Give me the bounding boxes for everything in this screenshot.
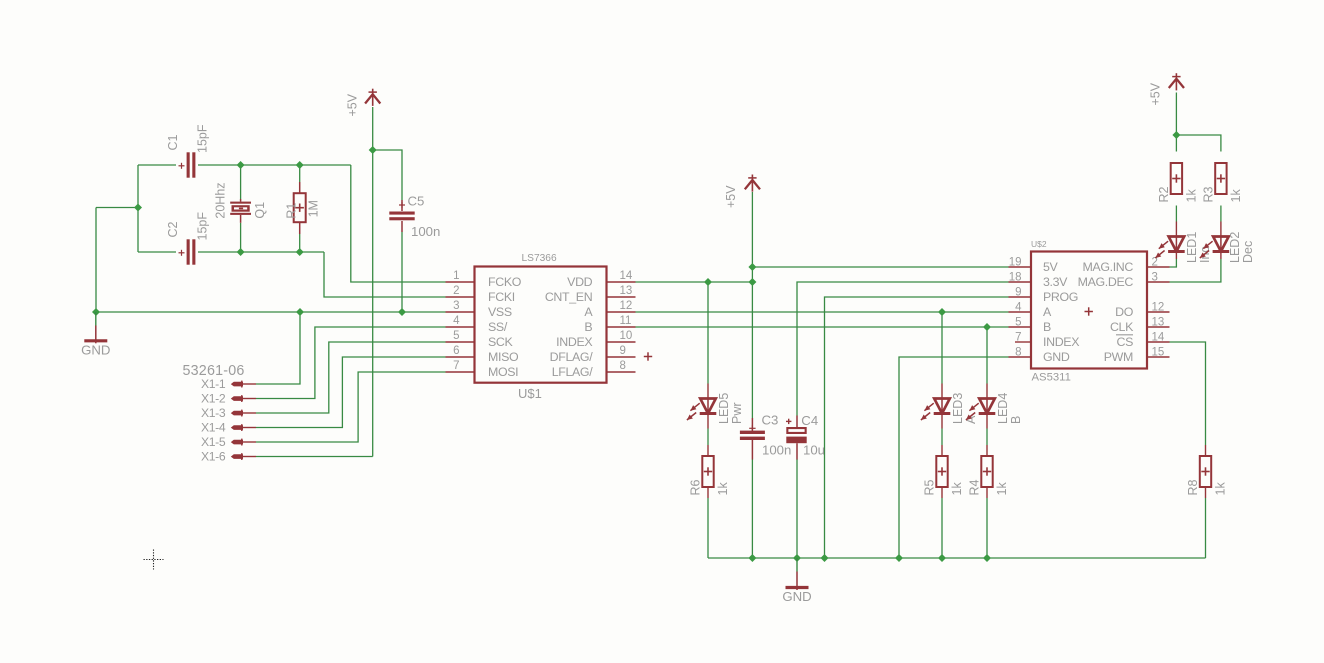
svg-text:3.3V: 3.3V <box>1043 275 1068 289</box>
svg-text:CLK: CLK <box>1110 320 1134 334</box>
svg-text:C2: C2 <box>166 221 180 237</box>
svg-text:X1-5: X1-5 <box>201 435 226 449</box>
svg-text:13: 13 <box>620 285 633 297</box>
svg-text:9: 9 <box>620 345 626 357</box>
svg-text:X1-3: X1-3 <box>201 406 226 420</box>
svg-text:R2: R2 <box>1157 186 1171 202</box>
svg-text:R1: R1 <box>284 203 298 219</box>
svg-text:GND: GND <box>81 343 110 358</box>
svg-text:CNT_EN: CNT_EN <box>545 290 592 304</box>
svg-text:8: 8 <box>1015 347 1021 359</box>
svg-text:19: 19 <box>1009 257 1022 269</box>
svg-text:PROG: PROG <box>1043 290 1078 304</box>
svg-text:VSS: VSS <box>488 305 512 319</box>
svg-text:100n: 100n <box>411 224 440 239</box>
svg-text:B: B <box>1043 320 1051 334</box>
svg-text:12: 12 <box>620 300 633 312</box>
svg-text:X1-1: X1-1 <box>201 377 226 391</box>
svg-text:PWM: PWM <box>1104 350 1133 364</box>
svg-text:X1-2: X1-2 <box>201 392 226 406</box>
svg-text:LED2: LED2 <box>1228 232 1242 263</box>
svg-text:2: 2 <box>1152 257 1158 269</box>
svg-text:R3: R3 <box>1201 186 1215 202</box>
svg-text:5: 5 <box>453 330 459 342</box>
svg-text:1M: 1M <box>306 200 320 217</box>
svg-text:LED3: LED3 <box>951 393 965 424</box>
svg-text:FCKO: FCKO <box>488 275 522 289</box>
svg-text:R5: R5 <box>922 479 936 495</box>
svg-text:Q1: Q1 <box>253 202 267 219</box>
svg-text:R6: R6 <box>688 479 702 495</box>
svg-text:4: 4 <box>453 315 460 327</box>
svg-text:LS7366: LS7366 <box>522 253 557 264</box>
svg-text:MAG.INC: MAG.INC <box>1082 260 1133 274</box>
svg-text:LED4: LED4 <box>996 393 1010 424</box>
svg-text:13: 13 <box>1152 317 1165 329</box>
svg-text:14: 14 <box>620 270 633 282</box>
svg-text:6: 6 <box>453 345 459 357</box>
svg-text:C1: C1 <box>166 134 180 150</box>
svg-text:INDEX: INDEX <box>556 335 592 349</box>
svg-text:18: 18 <box>1009 272 1022 284</box>
svg-text:1k: 1k <box>1229 189 1243 203</box>
svg-text:X1-6: X1-6 <box>201 450 226 464</box>
svg-text:AS5311: AS5311 <box>1032 372 1071 384</box>
svg-text:10: 10 <box>620 330 633 342</box>
svg-text:DFLAG/: DFLAG/ <box>550 350 594 364</box>
svg-text:+5V: +5V <box>724 185 738 208</box>
svg-text:R8: R8 <box>1186 479 1200 495</box>
svg-text:1k: 1k <box>950 482 964 496</box>
svg-text:MOSI: MOSI <box>488 365 518 379</box>
svg-text:VDD: VDD <box>567 275 593 289</box>
svg-text:8: 8 <box>620 360 626 372</box>
svg-text:GND: GND <box>1043 350 1070 364</box>
svg-text:1k: 1k <box>1213 482 1227 496</box>
svg-text:100n: 100n <box>762 443 791 458</box>
svg-text:Dec: Dec <box>1241 241 1255 263</box>
svg-text:R4: R4 <box>967 479 981 495</box>
svg-text:LED5: LED5 <box>717 393 731 424</box>
svg-text:LED1: LED1 <box>1185 232 1199 263</box>
svg-text:15: 15 <box>1152 347 1165 359</box>
svg-text:C3: C3 <box>762 413 779 428</box>
svg-text:1k: 1k <box>995 482 1009 496</box>
svg-text:4: 4 <box>1015 302 1022 314</box>
svg-text:5: 5 <box>1015 317 1021 329</box>
svg-text:LFLAG/: LFLAG/ <box>552 365 594 379</box>
svg-text:U$2: U$2 <box>1031 239 1047 249</box>
svg-text:14: 14 <box>1152 332 1165 344</box>
svg-text:7: 7 <box>1015 332 1021 344</box>
svg-text:MISO: MISO <box>488 350 519 364</box>
svg-text:SS/: SS/ <box>488 320 508 334</box>
svg-text:10u: 10u <box>803 443 825 458</box>
svg-text:C5: C5 <box>408 194 425 209</box>
svg-text:U$1: U$1 <box>518 386 542 401</box>
svg-text:GND: GND <box>782 589 811 604</box>
svg-text:2: 2 <box>453 285 459 297</box>
svg-text:CS: CS <box>1116 335 1133 349</box>
svg-text:A: A <box>584 305 593 319</box>
svg-text:5V: 5V <box>1043 260 1059 274</box>
svg-text:DO: DO <box>1115 305 1134 319</box>
svg-text:7: 7 <box>453 360 459 372</box>
svg-text:20Hhz: 20Hhz <box>213 182 227 218</box>
svg-text:A: A <box>1043 305 1052 319</box>
svg-text:MAG.DEC: MAG.DEC <box>1078 275 1134 289</box>
svg-text:1: 1 <box>453 270 459 282</box>
svg-text:C4: C4 <box>801 413 818 428</box>
svg-text:1k: 1k <box>1184 189 1198 203</box>
svg-text:15pF: 15pF <box>195 124 209 153</box>
svg-text:+5V: +5V <box>1149 82 1163 105</box>
svg-text:12: 12 <box>1152 302 1165 314</box>
svg-text:SCK: SCK <box>488 335 514 349</box>
svg-text:15pF: 15pF <box>195 212 209 241</box>
svg-text:11: 11 <box>620 315 632 327</box>
svg-text:B: B <box>584 320 592 334</box>
svg-text:Pwr: Pwr <box>730 402 744 424</box>
svg-text:FCKI: FCKI <box>488 290 515 304</box>
svg-text:INDEX: INDEX <box>1043 335 1079 349</box>
svg-text:1k: 1k <box>716 482 730 496</box>
svg-text:X1-4: X1-4 <box>201 421 226 435</box>
svg-text:+5V: +5V <box>346 93 360 116</box>
svg-text:3: 3 <box>453 300 459 312</box>
svg-text:9: 9 <box>1015 287 1021 299</box>
svg-text:3: 3 <box>1152 272 1158 284</box>
svg-text:B: B <box>1009 416 1023 424</box>
